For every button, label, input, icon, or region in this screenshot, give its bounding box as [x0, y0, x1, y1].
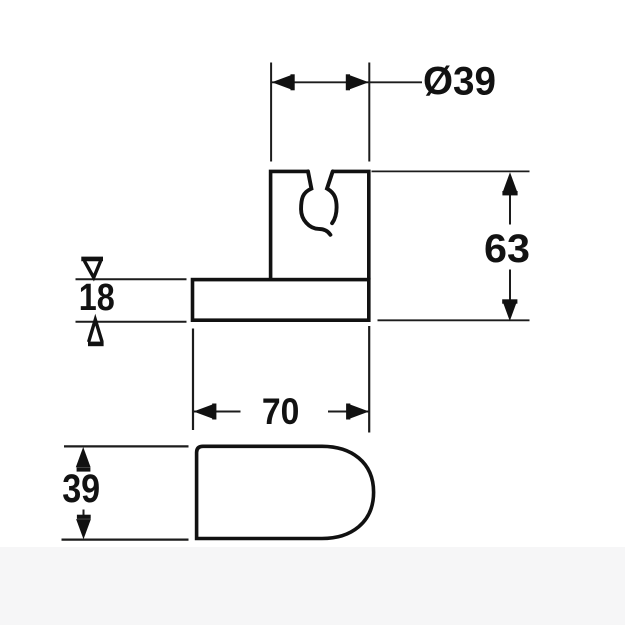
dim Ø39 right arrowhead — [346, 74, 369, 90]
dim 70 left line segment — [194, 411, 241, 413]
dim 63 lower stem — [509, 270, 511, 301]
svg-text:39: 39 — [62, 467, 100, 511]
dim 70 left extension line — [192, 329, 194, 431]
svg-text:63: 63 — [484, 227, 530, 271]
dim 63 upper stem — [509, 193, 511, 225]
dim 18 bottom extension line — [76, 321, 187, 323]
dim 63 top extension line — [372, 170, 530, 172]
dim 39 down arrowhead — [76, 515, 91, 540]
dim Ø39 dimension line — [272, 81, 423, 83]
dim 63 down arrowhead — [502, 299, 517, 321]
keyhole slot right side — [327, 171, 337, 223]
bottom light strip — [0, 547, 625, 625]
svg-text:18: 18 — [79, 277, 115, 319]
dim 70 right arrowhead — [346, 404, 369, 420]
rounded holder outline (bottom view) — [197, 446, 374, 538]
keyhole slot left side — [301, 171, 330, 234]
dim 63 up arrowhead — [502, 172, 517, 195]
dim 39 top extension line — [64, 445, 189, 447]
dim Ø39 left extension line — [270, 63, 272, 162]
dim 18 top extension line — [76, 278, 187, 280]
svg-text:Ø39: Ø39 — [423, 59, 496, 103]
dim 39 lower stem — [83, 510, 85, 517]
base plate outline (front view) — [193, 280, 369, 321]
svg-text:70: 70 — [262, 391, 300, 432]
dim 63 bottom extension line — [378, 319, 530, 321]
dim 39 bottom extension line — [62, 538, 189, 540]
dim Ø39 left arrowhead — [272, 74, 295, 90]
dim 70 right extension line — [368, 326, 370, 433]
dim 70 right line segment — [328, 411, 369, 413]
dim 18 hollow up arrow — [88, 320, 104, 344]
upright body outline (front view) — [271, 171, 369, 279]
dim 18 hollow down arrow — [81, 259, 103, 278]
dim 70 left arrowhead — [194, 404, 217, 420]
dim 39 up arrowhead — [76, 447, 91, 472]
dim Ø39 right extension line — [368, 63, 370, 162]
